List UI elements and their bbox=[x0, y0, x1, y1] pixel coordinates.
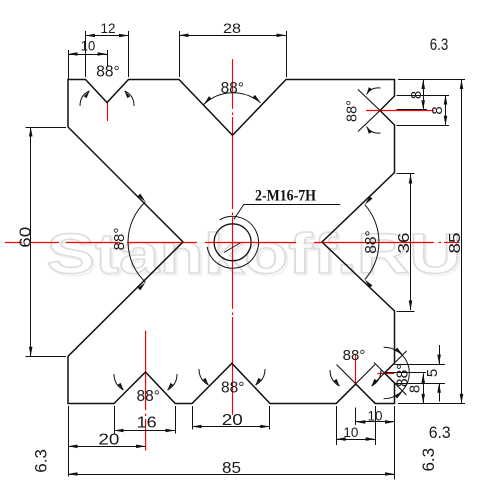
dimension 36 (right V opening) bbox=[409, 174, 413, 310]
extension line right edge down bbox=[394, 406, 396, 480]
extension lines for 60 bbox=[26, 127, 67, 129]
dimension 28 (top-center V opening) bbox=[179, 34, 286, 38]
extension line for 10 bbox=[68, 50, 70, 79]
svg-text:36: 36 bbox=[396, 232, 413, 253]
centerline of bottom-left V-notch bbox=[145, 331, 147, 451]
dimension 85 (overall height) bbox=[460, 80, 464, 404]
dimension 5 (outside arrows) bbox=[437, 345, 441, 402]
svg-text:88°: 88° bbox=[221, 379, 244, 396]
extension lines for 28 bbox=[179, 31, 181, 77]
leader arrows top-left V bbox=[80, 91, 90, 106]
vertical centerline through hole and top/bottom V vertices bbox=[232, 59, 234, 415]
svg-text:6.3: 6.3 bbox=[429, 423, 451, 442]
leader arrows bottom-center V bbox=[199, 369, 209, 385]
svg-text:16: 16 bbox=[137, 415, 157, 432]
centerline of bottom-right corner notch (vertical) bbox=[355, 355, 357, 385]
extension lines for 12 bbox=[85, 31, 87, 77]
dimension 85 (overall width) bbox=[68, 472, 395, 476]
tapped hole 2-M16-7H : minor circle bbox=[214, 224, 251, 261]
svg-text:20: 20 bbox=[222, 412, 243, 429]
svg-text:2-M16-7H: 2-M16-7H bbox=[255, 187, 316, 204]
leader arrows bottom-left V bbox=[114, 374, 124, 390]
svg-text:88°: 88° bbox=[343, 347, 366, 364]
extension line bottom edge right bbox=[398, 403, 465, 405]
angle arc top-center V bbox=[204, 93, 261, 105]
svg-text:8: 8 bbox=[429, 106, 446, 114]
angle arc right V bbox=[365, 205, 379, 280]
die body outline with V-grooves bbox=[68, 80, 395, 404]
extension lines for 10 lower bbox=[336, 406, 338, 445]
svg-text:6.3: 6.3 bbox=[419, 448, 438, 472]
bottom-right side V-notch wall extension lines bbox=[374, 363, 407, 396]
dimension 16 (bottom-left V opening) bbox=[114, 429, 175, 433]
leader line for hole callout bbox=[234, 204, 244, 219]
dimension 12 (top-left V opening) bbox=[86, 34, 129, 38]
top-right V-notch wall extension lines bbox=[358, 111, 380, 132]
svg-text:6.3: 6.3 bbox=[430, 35, 449, 54]
extension lines for 10 upper bbox=[355, 408, 357, 426]
svg-text:5: 5 bbox=[424, 369, 441, 377]
svg-text:88°: 88° bbox=[96, 64, 119, 81]
dimension 20 (bottom-center V opening) bbox=[192, 425, 270, 429]
dimension 8 (top edge to notch center) bbox=[421, 80, 425, 110]
bottom corner V-notch wall extension lines bbox=[336, 365, 375, 404]
svg-text:6.3: 6.3 bbox=[32, 449, 51, 473]
svg-text:88°: 88° bbox=[345, 100, 361, 122]
dimension 20 (left edge to V center) bbox=[68, 445, 146, 449]
dimension 10 (corner notch opening) bbox=[336, 437, 375, 441]
extension lines for 5 and 8 bbox=[395, 364, 446, 366]
centerline of top-left V-notch bbox=[107, 103, 109, 122]
svg-text:8: 8 bbox=[408, 91, 425, 99]
thread run-out stroke inside hole bbox=[224, 243, 240, 253]
tapped hole thread arc (3/4 circle) bbox=[207, 216, 258, 268]
svg-text:8: 8 bbox=[406, 385, 423, 393]
svg-text:10: 10 bbox=[81, 39, 96, 54]
centerline of top-right V-notch bbox=[366, 110, 434, 112]
svg-text:85: 85 bbox=[447, 232, 464, 253]
svg-text:20: 20 bbox=[98, 432, 119, 449]
svg-text:10: 10 bbox=[343, 425, 358, 440]
extension lines for 20 center bbox=[192, 406, 194, 430]
svg-text:88°: 88° bbox=[363, 230, 380, 253]
extension line top edge to 85/8 dims bbox=[398, 79, 465, 81]
horizontal centerline through hole and side V vertices bbox=[5, 242, 460, 244]
dimension 8 (notch opening) bbox=[444, 95, 448, 125]
centerline of bottom-right side notch (horizontal) bbox=[378, 373, 395, 375]
svg-text:88°: 88° bbox=[111, 228, 128, 251]
leader arrows bottom corner notch bbox=[330, 370, 340, 386]
svg-text:88°: 88° bbox=[136, 388, 159, 405]
dimension 10 (notch center to right edge) bbox=[356, 420, 395, 424]
svg-text:85: 85 bbox=[222, 460, 241, 477]
dimension 60 (left V opening) bbox=[29, 127, 33, 356]
dimension 10 (left edge to V center) bbox=[68, 52, 107, 56]
extension lines for 16 bbox=[114, 406, 116, 434]
svg-text:88°: 88° bbox=[221, 80, 244, 97]
svg-text:12: 12 bbox=[101, 20, 116, 36]
svg-text:28: 28 bbox=[223, 20, 241, 36]
extension line left edge down bbox=[68, 406, 70, 477]
angle arc left V bbox=[128, 202, 145, 282]
extension lines for 36 bbox=[397, 173, 415, 175]
leader arrows top-right V bbox=[367, 88, 381, 95]
svg-text:60: 60 bbox=[17, 227, 34, 248]
dimension 8 (notch center to bottom edge) bbox=[421, 373, 425, 403]
angle arc bottom-right side notch bbox=[384, 347, 410, 398]
